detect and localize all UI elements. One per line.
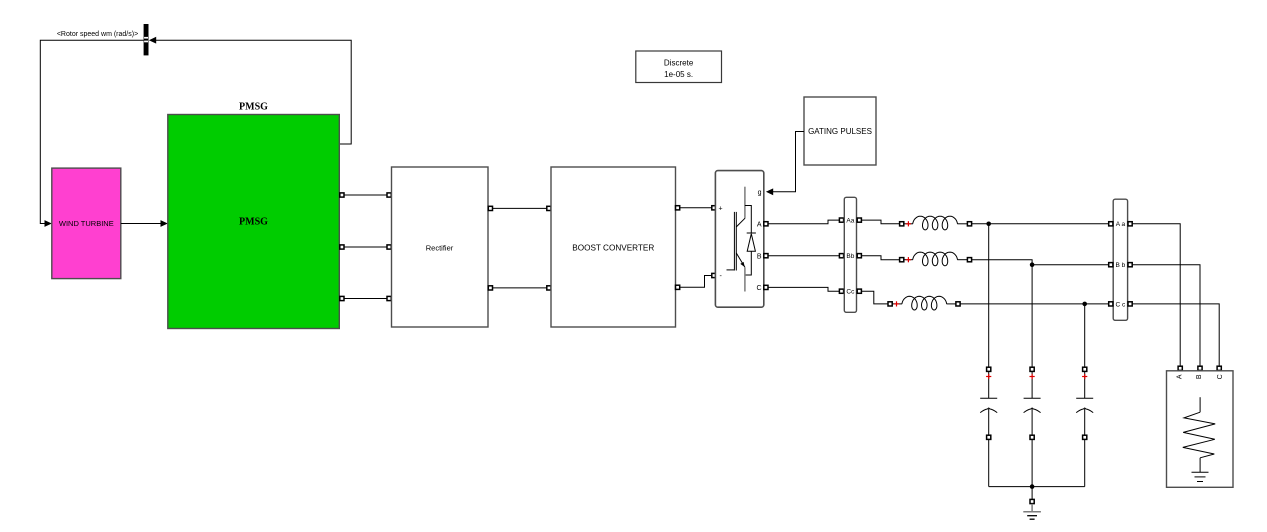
svg-text:Discrete: Discrete (664, 59, 694, 68)
port squares on M2 left (1109, 222, 1113, 226)
wire: M2 C to load C (1128, 302, 1222, 371)
red + of L1 branch (906, 221, 911, 226)
svg-text:+: + (719, 206, 723, 213)
svg-text:B b: B b (1116, 262, 1126, 269)
wire: gating pulses to inverter g input (770, 132, 804, 192)
wire: M1 Bb to inductor L2 (857, 254, 904, 262)
junction node C (1082, 302, 1087, 307)
svg-text:WIND TURBINE: WIND TURBINE (59, 219, 114, 228)
IGBT gate double bar (733, 212, 735, 271)
svg-text:B: B (757, 253, 762, 260)
IGBT collector diagonal (736, 218, 745, 227)
block: WIND TURBINE (52, 168, 121, 279)
ground G1 (1023, 499, 1041, 519)
junction node B (1030, 262, 1035, 267)
collector branch to diode (745, 206, 751, 233)
svg-text:Rectifier: Rectifier (426, 244, 454, 253)
inductor L3 (892, 296, 958, 310)
svg-text:A: A (1177, 374, 1184, 379)
wire: L3 to bus node C (956, 302, 1113, 306)
wire: node C down to capacitor C3 (1084, 304, 1086, 367)
resistor R1 bottom lead (1199, 458, 1201, 473)
wire: PMSG phase A to Rectifier (339, 193, 391, 197)
arrowhead into bus selector (149, 37, 156, 44)
wire: Boost - to inverter - (676, 273, 717, 289)
wire: bus selector output to Wind Turbine input (40, 40, 143, 223)
wire: Wind Turbine to PMSG (121, 223, 164, 225)
arrowhead into PMSG (161, 220, 168, 227)
diode lead down (745, 251, 751, 275)
svg-text:PMSG: PMSG (239, 102, 268, 113)
block: GATING PULSES subsystem (804, 97, 876, 165)
wire: inverter B to measurement Bb (764, 254, 845, 258)
emitter lead (744, 267, 746, 291)
svg-text:Bb: Bb (846, 253, 854, 260)
svg-text:B: B (1196, 374, 1203, 379)
svg-text:C c: C c (1116, 301, 1127, 308)
diode D1 bar (747, 232, 756, 234)
wire: M1 Cc to inductor L3 (857, 289, 893, 306)
inductor L2 (904, 252, 970, 266)
block: three-phase VI measurement M2 (1113, 199, 1127, 320)
wire: PMSG phase C to Rectifier (339, 296, 391, 300)
svg-text:C: C (1217, 374, 1224, 379)
bus selector B1 (144, 24, 149, 55)
wire: L1 to bus node A (967, 222, 1113, 226)
block: powergui Discrete (636, 51, 722, 83)
wire: M1 Aa to inductor L1 (857, 218, 904, 226)
svg-text:1e-05 s.: 1e-05 s. (664, 70, 693, 79)
block: three-phase RLC load (1167, 371, 1234, 488)
junction node N (1030, 484, 1035, 489)
diode D1 triangle (747, 234, 755, 252)
capacitor C2 (1024, 367, 1041, 486)
arrowhead into Wind Turbine (45, 220, 52, 227)
ground G2 (1192, 471, 1209, 473)
block: Rectifier subsystem (392, 167, 489, 327)
wire: inverter A to measurement Aa (764, 218, 845, 226)
wire: Rectifier + output to Boost Converter (488, 206, 551, 210)
red + of L2 branch (906, 257, 911, 262)
wire: node A down to capacitor C1 (988, 224, 990, 367)
capacitor C1 (980, 367, 997, 486)
wire: Rectifier - output to Boost Converter (488, 286, 551, 290)
red + of L3 branch (894, 301, 899, 306)
wire: node N to ground G1 (1031, 487, 1033, 500)
svg-text:g: g (758, 190, 762, 197)
arrowhead into g (766, 188, 773, 195)
svg-text:PMSG: PMSG (239, 217, 268, 228)
wire: inverter C to measurement Cc (764, 285, 845, 293)
wire: M2 B to load B (1128, 263, 1203, 371)
wire: PMSG phase B to Rectifier (339, 245, 391, 249)
capacitor C3 (1076, 367, 1093, 486)
block: Universal Bridge inverter U1 (715, 171, 763, 308)
junction node A (986, 222, 991, 227)
gate lead (727, 269, 735, 271)
resistor R1 zigzag (1183, 412, 1215, 458)
wire: PMSG m output feedback to bus selector (153, 40, 352, 144)
inductor L1 (904, 216, 970, 230)
wire: Boost + to inverter + (676, 206, 717, 210)
svg-text:GATING PULSES: GATING PULSES (808, 127, 872, 136)
svg-text:Aa: Aa (846, 218, 854, 225)
IGBT collector lead (744, 187, 746, 219)
wire: M2 A to load A (1128, 222, 1183, 371)
wire: node B down to capacitor C2 (1031, 265, 1033, 367)
block: PMSG generator (168, 115, 339, 329)
svg-text:BOOST CONVERTER: BOOST CONVERTER (572, 244, 654, 253)
svg-text:A a: A a (1116, 221, 1126, 228)
svg-text:Cc: Cc (846, 289, 855, 296)
resistor R1 top lead (1199, 397, 1201, 412)
wire: capacitor common bus (989, 486, 1085, 488)
block: three-phase VI measurement M1 (844, 197, 856, 312)
block: BOOST CONVERTER subsystem (551, 167, 676, 327)
svg-text:A: A (757, 222, 762, 229)
svg-text:<Rotor speed wm (rad/s)>: <Rotor speed wm (rad/s)> (57, 31, 138, 38)
svg-text:C: C (756, 285, 761, 292)
wire: L2 to bus node B (967, 258, 1113, 265)
IGBT emitter diagonal with arrow (736, 253, 745, 267)
